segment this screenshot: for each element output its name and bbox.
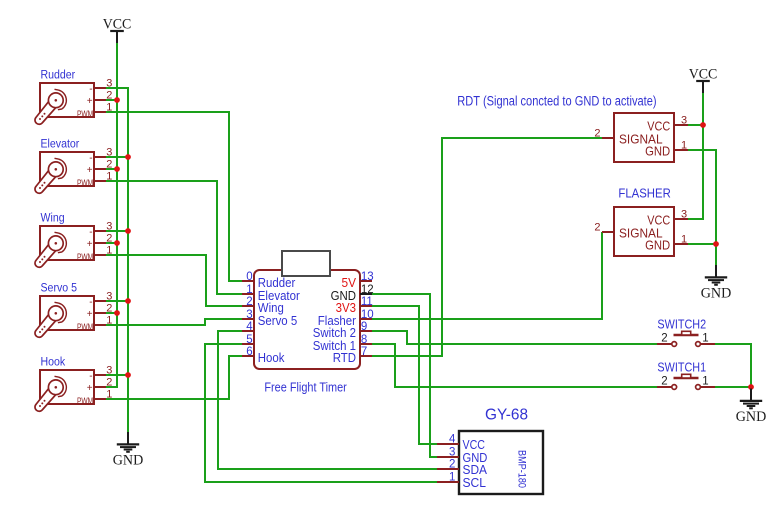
wire bbox=[106, 99, 117, 101]
wire bbox=[205, 344, 437, 482]
wire bbox=[106, 242, 117, 244]
junction bbox=[125, 228, 131, 234]
wire bbox=[372, 344, 657, 387]
wire bbox=[106, 156, 128, 158]
svg-text:Servo 5: Servo 5 bbox=[258, 313, 297, 328]
svg-text:Free Flight Timer: Free Flight Timer bbox=[264, 380, 347, 395]
switch SWITCH1 bbox=[657, 374, 715, 389]
svg-text:8: 8 bbox=[361, 334, 367, 346]
svg-text:BMP-180: BMP-180 bbox=[516, 450, 528, 488]
svg-text:2: 2 bbox=[449, 459, 455, 471]
wire bbox=[218, 331, 437, 469]
svg-text:Hook: Hook bbox=[258, 350, 285, 365]
svg-text:3: 3 bbox=[246, 309, 252, 321]
svg-text:13: 13 bbox=[361, 271, 374, 283]
RDT module box bbox=[594, 113, 688, 162]
wire bbox=[106, 300, 128, 302]
svg-text:RTD: RTD bbox=[333, 350, 356, 365]
servo connector Hook bbox=[35, 364, 112, 411]
FLASHER module box bbox=[594, 207, 688, 256]
wire bbox=[688, 91, 703, 219]
power symbol GND (below switches) bbox=[736, 389, 767, 425]
svg-text:GY-68: GY-68 bbox=[485, 406, 528, 423]
wire bbox=[106, 255, 242, 306]
svg-text:10: 10 bbox=[361, 309, 374, 321]
junction bbox=[114, 240, 120, 246]
connector outline above IC bbox=[282, 251, 330, 276]
svg-text:1: 1 bbox=[449, 472, 455, 484]
junction bbox=[700, 122, 706, 128]
svg-text:4: 4 bbox=[449, 434, 456, 446]
svg-text:1: 1 bbox=[246, 284, 252, 296]
wire bbox=[715, 386, 751, 388]
wire bbox=[106, 181, 242, 294]
svg-text:Servo 5: Servo 5 bbox=[41, 281, 78, 295]
servo connector Wing bbox=[35, 220, 112, 267]
net GND servo bus bbox=[106, 88, 128, 432]
svg-text:Elevator: Elevator bbox=[41, 137, 80, 151]
junction bbox=[713, 241, 719, 247]
junction bbox=[125, 154, 131, 160]
wire bbox=[372, 294, 437, 457]
svg-text:RDT (Signal concted to GND to: RDT (Signal concted to GND to activate) bbox=[457, 93, 656, 108]
svg-text:0: 0 bbox=[246, 271, 252, 283]
power symbol VCC (right) bbox=[689, 66, 718, 93]
svg-text:SWITCH2: SWITCH2 bbox=[657, 316, 706, 331]
svg-text:SCL: SCL bbox=[463, 475, 487, 490]
svg-text:Wing: Wing bbox=[41, 211, 65, 225]
wire bbox=[688, 243, 716, 245]
power symbol GND (left) bbox=[113, 432, 144, 468]
junction bbox=[748, 384, 754, 390]
wire bbox=[372, 331, 657, 344]
svg-text:11: 11 bbox=[361, 296, 373, 308]
junction bbox=[114, 166, 120, 172]
junction bbox=[125, 298, 131, 304]
switch SWITCH2 bbox=[657, 331, 715, 346]
junction bbox=[125, 372, 131, 378]
wire bbox=[688, 150, 716, 265]
svg-text:6: 6 bbox=[246, 346, 252, 358]
wire bbox=[106, 112, 242, 281]
wire bbox=[106, 230, 128, 232]
wire bbox=[106, 319, 242, 325]
junction bbox=[114, 310, 120, 316]
svg-text:Hook: Hook bbox=[41, 355, 66, 369]
svg-text:Rudder: Rudder bbox=[41, 68, 76, 82]
svg-text:5: 5 bbox=[246, 334, 252, 346]
power symbol GND (below FLASHER) bbox=[701, 265, 732, 301]
svg-text:3: 3 bbox=[449, 447, 455, 459]
junction bbox=[114, 97, 120, 103]
wire bbox=[106, 374, 128, 376]
servo connector Rudder bbox=[35, 77, 112, 124]
GY-68 BMP-180 module bbox=[437, 431, 543, 494]
wire bbox=[372, 232, 602, 319]
wire bbox=[106, 312, 117, 314]
svg-text:FLASHER: FLASHER bbox=[618, 186, 670, 201]
wire bbox=[106, 356, 242, 399]
IC U1 Free Flight Timer bbox=[242, 270, 374, 369]
power symbol VCC (left) bbox=[103, 16, 132, 43]
svg-text:2: 2 bbox=[246, 296, 252, 308]
net VCC servo bus bbox=[106, 43, 117, 387]
svg-text:SWITCH1: SWITCH1 bbox=[657, 359, 706, 374]
servo connector Servo 5 bbox=[35, 290, 112, 337]
servo connector Elevator bbox=[35, 146, 112, 193]
svg-text:12: 12 bbox=[361, 284, 374, 296]
svg-text:7: 7 bbox=[361, 346, 367, 358]
wire bbox=[372, 138, 602, 356]
wire bbox=[688, 124, 703, 126]
wire bbox=[372, 306, 437, 444]
svg-text:4: 4 bbox=[246, 321, 253, 333]
wire bbox=[715, 344, 751, 387]
wire bbox=[106, 168, 117, 170]
svg-text:9: 9 bbox=[361, 321, 367, 333]
